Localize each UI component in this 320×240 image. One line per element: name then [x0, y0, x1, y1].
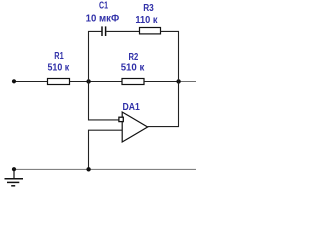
wire: node A up to top branch [89, 31, 102, 81]
wire: op-amp output up to node B [148, 82, 179, 127]
node ground junction [86, 167, 90, 171]
wire: R1 to R2 through node A [70, 81, 123, 83]
svg-text:510 к: 510 к [121, 62, 146, 73]
wire: C1 to R3 [106, 30, 139, 32]
node A junction [86, 79, 90, 83]
resistor R2 [122, 79, 144, 85]
svg-text:R1: R1 [54, 51, 64, 62]
wire: non-inverting input to ground rail [89, 130, 123, 169]
svg-text:DA1: DA1 [123, 102, 141, 113]
op-amp DA1 [122, 112, 147, 142]
wire: output from node B to right edge [179, 81, 196, 83]
svg-text:510 к: 510 к [48, 62, 71, 73]
node ground terminal [12, 167, 16, 171]
resistor R3 [140, 28, 161, 34]
pin marker inverting input [119, 117, 123, 121]
capacitor C1 [102, 26, 106, 36]
ground [5, 169, 24, 186]
node input terminal [12, 79, 16, 83]
svg-text:C1: C1 [99, 1, 108, 12]
resistor R1 [48, 79, 70, 85]
svg-text:R3: R3 [143, 3, 154, 14]
wire: ground rail [14, 168, 196, 170]
node B junction [176, 79, 180, 83]
wire: R3 down to node B [161, 31, 179, 81]
wire: node A down to inverting input [89, 82, 122, 120]
svg-text:10 мкФ: 10 мкФ [86, 14, 120, 25]
wire: input wire from terminal to R1 [14, 81, 48, 83]
svg-text:110 к: 110 к [135, 15, 158, 26]
wire: R2 to output edge through node B [144, 81, 179, 83]
